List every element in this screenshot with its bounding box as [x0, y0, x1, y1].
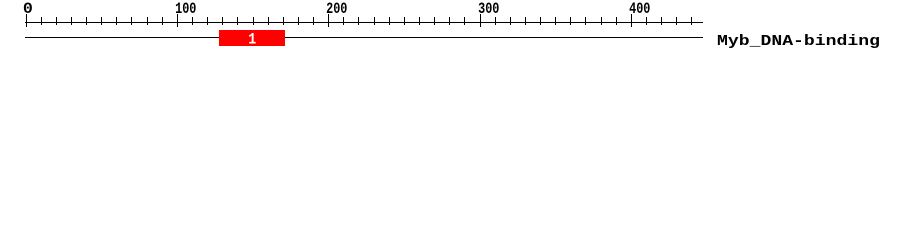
- svg-text:300: 300: [478, 0, 499, 18]
- svg-text:Myb_DNA-binding: Myb_DNA-binding: [717, 34, 880, 50]
- svg-text:400: 400: [629, 0, 650, 18]
- svg-text:200: 200: [326, 0, 347, 18]
- svg-text:0: 0: [23, 0, 33, 18]
- svg-text:1: 1: [248, 31, 256, 49]
- svg-text:100: 100: [175, 0, 196, 18]
